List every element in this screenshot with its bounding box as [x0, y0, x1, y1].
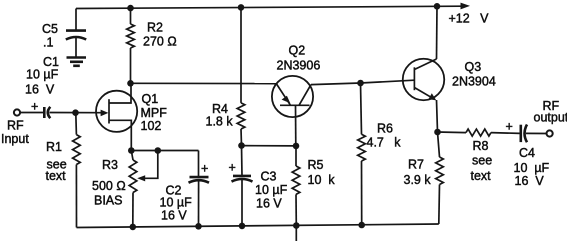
- svg-text:Q3: Q3: [465, 60, 482, 74]
- capacitor C4: [506, 120, 550, 189]
- svg-text:C5: C5: [42, 22, 58, 36]
- resistor R2: [127, 8, 177, 83]
- svg-text:500 Ω: 500 Ω: [92, 179, 126, 193]
- svg-text:+: +: [31, 100, 38, 114]
- svg-text:C4: C4: [519, 146, 535, 160]
- node rail R5 ground stub: [293, 222, 300, 229]
- svg-text:10 µF: 10 µF: [160, 196, 193, 210]
- resistor R4: [206, 7, 245, 145]
- svg-text:10 k: 10 k: [308, 173, 336, 187]
- svg-text:10 µF: 10 µF: [514, 161, 550, 175]
- svg-text:10 µF: 10 µF: [26, 68, 59, 82]
- svg-text:output: output: [534, 111, 567, 125]
- svg-text:R1: R1: [46, 140, 62, 154]
- transistor Q1 (JFET MPF102): [96, 83, 167, 150]
- resistor R3 500 ohm BIAS potentiometer: [92, 151, 158, 227]
- node rail R3: [130, 224, 137, 231]
- resistor R7: [404, 132, 444, 224]
- node input / R1 junction: [72, 109, 79, 116]
- svg-text:+: +: [506, 120, 513, 134]
- svg-text:+12 V: +12 V: [449, 12, 490, 26]
- svg-text:16 V: 16 V: [161, 209, 187, 223]
- wire bottom ground rail: [77, 224, 439, 228]
- svg-text:see: see: [472, 154, 492, 168]
- wire Q1 drain to Q2 emitter: [131, 82, 277, 84]
- node top rail / R4 junction: [238, 4, 245, 11]
- svg-text:16 V: 16 V: [515, 174, 545, 188]
- svg-text:text: text: [46, 169, 67, 183]
- node top rail / Q3 collector junction: [434, 3, 441, 10]
- resistor R5: [292, 146, 335, 226]
- svg-text:4.7 k: 4.7 k: [367, 136, 402, 150]
- svg-text:C3: C3: [261, 170, 277, 184]
- svg-text:102: 102: [141, 119, 162, 133]
- svg-text:270 Ω: 270 Ω: [143, 35, 177, 49]
- svg-text:2N3904: 2N3904: [452, 75, 496, 89]
- capacitor C1: [20, 55, 59, 118]
- svg-text:3.9 k: 3.9 k: [404, 173, 432, 187]
- svg-text:RF: RF: [7, 119, 24, 133]
- resistor R1: [46, 113, 81, 228]
- svg-text:R3: R3: [102, 158, 118, 172]
- svg-text:Q2: Q2: [289, 44, 306, 58]
- svg-text:16 V: 16 V: [25, 83, 55, 97]
- svg-text:2N3906: 2N3906: [277, 59, 321, 73]
- wire input node: [50, 112, 102, 114]
- svg-text:.1: .1: [43, 36, 53, 50]
- svg-text:1.8 k: 1.8 k: [206, 115, 234, 129]
- ground stub below rail: [295, 226, 297, 241]
- transistor Q3 (2N3904 NPN): [403, 6, 496, 132]
- node rail C3: [239, 223, 246, 230]
- +12V supply arrow: [449, 3, 490, 26]
- svg-text:R7: R7: [408, 158, 424, 172]
- svg-text:16 V: 16 V: [256, 197, 282, 211]
- capacitor C2: [160, 151, 210, 227]
- node Q1 source / R3 junction: [128, 147, 135, 154]
- svg-text:Input: Input: [1, 132, 29, 146]
- node R3 wiper tap junction: [155, 147, 162, 154]
- capacitor C5: [42, 9, 86, 58]
- node R6 top junction: [357, 80, 364, 87]
- wire Q2 collector to Q3 base: [311, 80, 414, 84]
- svg-text:+: +: [229, 161, 236, 175]
- RF output terminal: [534, 99, 567, 137]
- svg-text:Q1: Q1: [142, 92, 159, 106]
- node Q1 drain / R2 junction: [127, 80, 134, 87]
- node Q2 base / R5 junction: [293, 143, 300, 150]
- resistor R6: [358, 83, 402, 225]
- node Q3 emitter / R7 / R8 junction: [434, 129, 441, 136]
- svg-text:MPF: MPF: [141, 106, 168, 120]
- svg-text:R2: R2: [147, 21, 163, 35]
- wire source node: [131, 150, 198, 152]
- node rail R6: [358, 222, 365, 229]
- RF input terminal: [1, 109, 29, 146]
- svg-text:BIAS: BIAS: [94, 194, 123, 208]
- svg-text:R5: R5: [308, 158, 324, 172]
- svg-text:10 µF: 10 µF: [255, 183, 288, 197]
- svg-text:text: text: [471, 169, 492, 183]
- svg-text:+: +: [201, 162, 208, 176]
- wire top supply rail: [76, 6, 461, 8]
- transistor Q2 (2N3906 PNP): [272, 44, 320, 146]
- wire base net: [242, 145, 297, 147]
- svg-text:R8: R8: [473, 139, 489, 153]
- node top rail / R2 junction: [127, 5, 134, 12]
- node rail C2: [195, 223, 202, 230]
- svg-text:R6: R6: [377, 122, 393, 136]
- node R4 bottom / C3 / Q2 base net: [238, 142, 245, 149]
- ground: [67, 58, 87, 66]
- resistor R8: [438, 129, 520, 183]
- capacitor C3: [229, 146, 288, 226]
